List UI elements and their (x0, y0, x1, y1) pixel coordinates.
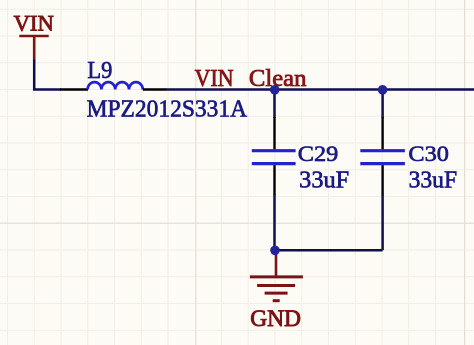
wire C29 top (273, 90, 276, 119)
capacitor C29 bottom pin (273, 165, 275, 195)
svg-text:33uF: 33uF (299, 168, 349, 194)
svg-text:VIN: VIN (195, 65, 234, 92)
svg-text:L9: L9 (87, 58, 112, 84)
capacitor C30 plates (360, 151, 405, 164)
ground bar 2 (257, 284, 295, 287)
power port VIN bar symbol (19, 35, 48, 38)
inductor L9 left pin (60, 88, 88, 90)
capacitor C30 top pin (381, 117, 383, 149)
svg-text:33uF: 33uF (409, 168, 458, 194)
capacitor C30 bottom pin (381, 165, 383, 195)
inductor L9 right pin (143, 88, 167, 90)
capacitor C29 top pin (273, 117, 275, 149)
svg-text:C30: C30 (408, 141, 449, 166)
svg-text:C29: C29 (298, 141, 339, 166)
wire VIN_Clean horizontal (166, 88, 474, 91)
net label VIN_Clean (195, 65, 307, 92)
ground bar 3 (265, 292, 288, 295)
ground bar 1 (250, 275, 303, 278)
wire from VIN down and right (34, 60, 61, 90)
wire bottom rail (275, 249, 383, 252)
wire C29 bottom (273, 195, 276, 251)
svg-text:MPZ2012S331A: MPZ2012S331A (87, 95, 248, 122)
inductor L9 arcs (88, 82, 143, 89)
ground stem (275, 250, 278, 277)
junction node at C29 top (270, 85, 280, 95)
wire C30 top (381, 90, 384, 119)
power port VIN stem (33, 36, 36, 61)
junction node at C30 top (378, 85, 388, 95)
wire C30 bottom (381, 195, 384, 251)
junction node at ground rail (270, 246, 280, 256)
ground bar 4 (273, 299, 280, 302)
capacitor C29 plates (252, 151, 296, 164)
svg-text:VIN: VIN (14, 10, 54, 35)
svg-text:GND: GND (250, 306, 301, 332)
